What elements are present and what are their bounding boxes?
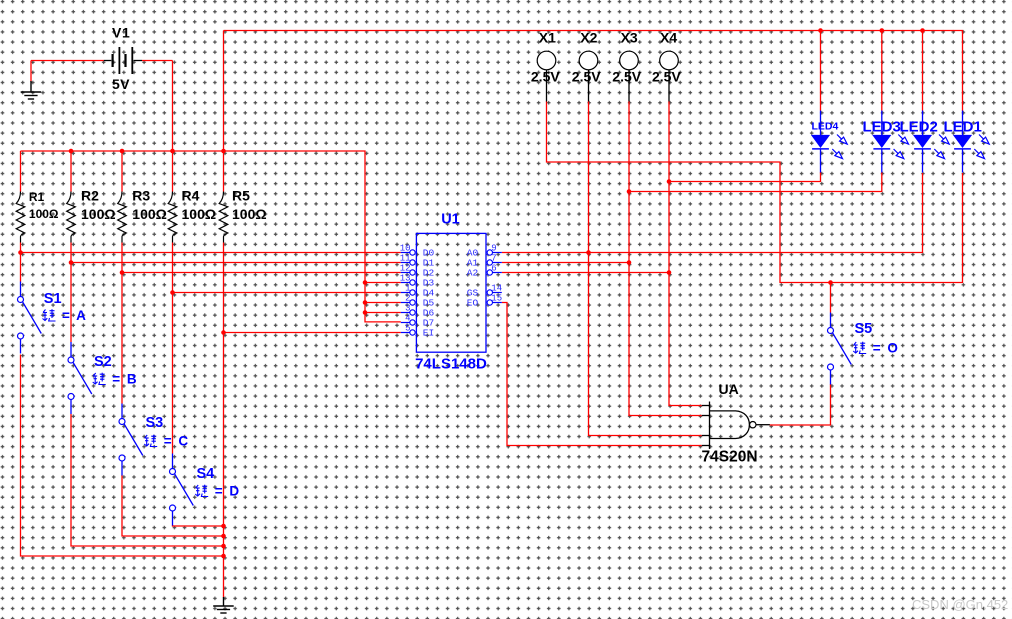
wire S4 to ground bus [173, 525, 224, 526]
U1 pin 14 GS [493, 292, 502, 294]
wire bus to resistor top x=122 [121, 151, 123, 192]
svg-text:13: 13 [400, 273, 411, 283]
wire UA output to S5 bottom [770, 384, 831, 425]
svg-text:4: 4 [405, 313, 410, 323]
switch S2 bottom lead [70, 399, 72, 414]
junction X3 LED3 [627, 189, 632, 194]
wire R5 column down to ground [223, 243, 225, 598]
switch S4 top lead [172, 454, 174, 469]
svg-text:R2: R2 [81, 188, 99, 204]
U1 pin 10 D0 [401, 252, 410, 254]
svg-text:LED2: LED2 [900, 119, 938, 136]
switch S4 top terminal [170, 469, 176, 475]
LED LED2 bottom lead [922, 149, 924, 173]
wire R2 bottom to S2 [70, 243, 72, 343]
wire X1 net to LED1 and S5 [547, 101, 963, 283]
junction R4 D4 [170, 290, 175, 295]
junction top bus LED2 [920, 28, 925, 33]
indicator X3 [620, 51, 639, 70]
LED LED2 triangle [913, 135, 932, 148]
wire X2 column to UA input 3 [589, 101, 702, 436]
svg-text:= B: = B [112, 372, 138, 387]
wire bus drop to LED2 [922, 31, 924, 111]
U1 pin 6 A2 [493, 272, 502, 274]
svg-text:X4: X4 [660, 30, 677, 46]
switch S1 top terminal [18, 297, 24, 303]
wire S1 to ground bus [21, 355, 224, 557]
ground top left [21, 81, 42, 99]
U1 pin 5 EI [401, 332, 410, 334]
svg-text:6: 6 [491, 263, 496, 273]
svg-text:S1: S1 [44, 291, 62, 307]
LED LED3 bottom lead [881, 149, 883, 173]
svg-text:R4: R4 [182, 188, 200, 204]
LED LED4 triangle [811, 135, 830, 148]
wire bus drop to LED4 [820, 31, 822, 111]
LED LED3 arrow 1 [898, 135, 908, 145]
wire LED3 branch [629, 172, 882, 192]
svg-text:S4: S4 [197, 466, 215, 482]
svg-text:= A: = A [62, 308, 87, 323]
junction bus R5 riser [221, 149, 226, 154]
wire 5V bus y=151 and riser to D7 [21, 151, 401, 322]
LED LED4 arrow 1 [837, 135, 847, 145]
LED LED4 bottom lead [820, 149, 822, 173]
junction ground S4 [221, 524, 226, 529]
svg-text:R5: R5 [232, 188, 250, 204]
switch S4 bottom terminal [170, 505, 176, 511]
label S4 key = D [195, 485, 208, 497]
battery V1 [104, 47, 142, 74]
svg-text:LED3: LED3 [863, 119, 901, 136]
switch S2 bottom terminal [68, 394, 74, 400]
wire bus drop to LED3 [881, 31, 883, 111]
wire X3 column to UA input 2 [629, 101, 702, 416]
switch S3 bottom terminal [119, 455, 125, 461]
junction bus R2 [69, 149, 74, 154]
switch S5 top lead [830, 313, 832, 328]
junction ground S1 [221, 554, 226, 559]
junction top bus LED4 [818, 28, 823, 33]
U1 pin 12 D2 [401, 272, 410, 274]
wire R1 bottom to S1 [20, 243, 22, 282]
svg-text:15: 15 [491, 293, 502, 303]
svg-text:V1: V1 [112, 25, 130, 41]
indicator X3 lead [628, 70, 630, 102]
svg-text:3: 3 [405, 303, 410, 313]
svg-text:R3: R3 [132, 188, 150, 204]
wire 5V to D6 [365, 312, 401, 314]
wire top 5V bus to LED1 [224, 31, 963, 112]
junction ground S2 [221, 544, 226, 549]
gate UA input stubs [702, 405, 710, 407]
wire V1 plus to bus riser [142, 60, 173, 62]
junction A2 X4 [667, 270, 672, 275]
U1 pin 3 D6 [401, 312, 410, 314]
wire ground to V1 minus [30, 61, 32, 83]
junction X1 net S5 [828, 280, 833, 285]
junction ground S3 [221, 534, 226, 539]
svg-text:100Ω: 100Ω [29, 207, 59, 221]
svg-text:2.5V: 2.5V [652, 69, 681, 85]
indicator X1 [537, 51, 556, 70]
svg-text:S5: S5 [855, 321, 873, 337]
LED LED3 triangle [872, 135, 891, 148]
switch S2 top lead [70, 342, 72, 357]
junction A0 X2 [586, 250, 591, 255]
LED LED1 triangle [953, 135, 972, 148]
wire bus to resistor top x=20.5 [20, 151, 22, 192]
junction X4 LED4 [667, 179, 672, 184]
wire EO to UA input 4 [502, 303, 702, 446]
switch S5 bottom terminal [828, 364, 834, 370]
svg-text:7: 7 [491, 253, 496, 263]
gate UA bubble [750, 422, 756, 428]
LED LED1 arrow 2 [974, 149, 984, 159]
svg-text:1: 1 [405, 283, 410, 293]
indicator X4 lead [668, 70, 670, 102]
junction R1 D0 [18, 250, 23, 255]
svg-text:LED4: LED4 [812, 121, 839, 133]
resistor R1 [16, 192, 25, 243]
svg-text:X2: X2 [580, 30, 597, 46]
svg-text:U1: U1 [441, 212, 460, 228]
svg-text:100Ω: 100Ω [182, 206, 217, 222]
wire LED4 branch [669, 172, 821, 182]
junction 5V D3 [363, 280, 368, 285]
U1 pin 1 D4 [401, 292, 410, 294]
svg-text:2.5V: 2.5V [531, 69, 560, 85]
LED LED3 top lead [881, 111, 883, 137]
indicator X2 lead [588, 70, 590, 102]
ground bottom [213, 597, 234, 613]
switch S1 blade [23, 302, 42, 333]
wire net B to D1 [71, 262, 401, 264]
svg-text:CSDN @Gn.452: CSDN @Gn.452 [912, 597, 1008, 612]
svg-text:10: 10 [400, 243, 411, 253]
indicator X1 lead [546, 70, 548, 102]
svg-text:100Ω: 100Ω [132, 206, 167, 222]
LED LED2 top lead [922, 111, 924, 137]
wire net C to D2 [122, 272, 401, 274]
wire S2 to ground bus [71, 414, 224, 546]
LED LED1 cathode bar [954, 148, 971, 150]
svg-text:S2: S2 [94, 354, 112, 370]
U1 pin 7 A1 [493, 262, 502, 264]
svg-text:2.5V: 2.5V [572, 69, 601, 85]
switch S5 bottom lead [830, 370, 832, 385]
svg-text:X1: X1 [539, 30, 556, 46]
switch S5 blade [833, 333, 852, 364]
svg-text:= O: = O [873, 341, 900, 356]
wire A0 to X2 and LED2 [502, 173, 923, 253]
switch S2 blade [73, 363, 92, 394]
switch S3 blade [124, 424, 143, 455]
wire R4 bottom to S4 [172, 243, 174, 454]
resistor R2 [67, 192, 76, 243]
junction A1 X3 [627, 260, 632, 265]
LED LED1 top lead [962, 111, 964, 137]
svg-text:100Ω: 100Ω [232, 206, 267, 222]
gate UA 74S20N body [710, 402, 750, 450]
U1 pin 13 D3 [401, 282, 410, 284]
switch S4 bottom lead [172, 511, 174, 526]
switch S3 top terminal [119, 419, 125, 425]
LED LED4 cathode bar [812, 148, 829, 150]
svg-text:X3: X3 [621, 30, 638, 46]
U1 pin 4 D7 [401, 322, 410, 324]
wire 5V to D3 [365, 282, 401, 284]
wire bus to resistor top x=223.5 [223, 151, 225, 192]
switch S3 top lead [121, 404, 123, 419]
LED LED1 arrow 1 [979, 135, 989, 145]
switch S1 top lead [20, 282, 22, 297]
switch S2 top terminal [68, 357, 74, 363]
wire EI row [224, 332, 401, 334]
junction 5V D6 [363, 310, 368, 315]
wire X4 column to UA input 1 [669, 101, 702, 406]
svg-text:= C: = C [164, 434, 190, 449]
svg-text:74LS148D: 74LS148D [415, 356, 487, 373]
LED LED2 arrow 1 [939, 135, 949, 145]
wire node to S5 top [830, 283, 832, 313]
svg-text:EO: EO [467, 298, 479, 309]
wire S3 to ground bus [122, 475, 224, 536]
resistor R4 [168, 192, 177, 243]
indicator X2 [579, 51, 598, 70]
svg-text:R1: R1 [29, 190, 45, 204]
svg-text:S3: S3 [146, 415, 164, 431]
LED LED4 top lead [820, 111, 822, 137]
wire R3 bottom to S3 [121, 243, 123, 404]
svg-text:11: 11 [400, 253, 411, 263]
svg-text:2: 2 [405, 293, 410, 303]
indicator X4 [660, 51, 679, 70]
svg-text:EI: EI [423, 328, 434, 339]
LED LED3 arrow 2 [894, 149, 904, 159]
svg-text:UA: UA [719, 381, 739, 397]
wire net D to D4 [173, 292, 401, 294]
switch S1 bottom terminal [18, 333, 24, 339]
junction top bus LED3 [880, 28, 885, 33]
svg-text:A2: A2 [467, 268, 479, 279]
svg-text:9: 9 [491, 243, 496, 253]
U1 pin 9 A0 [493, 252, 502, 254]
wire bus to resistor top x=71 [70, 151, 72, 192]
LED LED1 bottom lead [962, 149, 964, 173]
junction R3 D2 [120, 270, 125, 275]
op U1 74LS148D body [416, 233, 486, 352]
wire A2 to X4 node [502, 272, 669, 274]
svg-text:100Ω: 100Ω [81, 206, 116, 222]
svg-text:14: 14 [491, 283, 502, 293]
svg-text:LED1: LED1 [944, 119, 982, 136]
label S1 key = A [43, 309, 56, 321]
wire 5V to D5 [365, 302, 401, 304]
U1 pin 11 D1 [401, 262, 410, 264]
LED LED4 arrow 2 [832, 149, 842, 159]
wire A1 to X3 node [502, 262, 629, 264]
junction R5 EI [221, 330, 226, 335]
junction R2 D1 [69, 260, 74, 265]
wire bus to resistor top x=172.5 [172, 151, 174, 192]
label S5 key = O [853, 342, 866, 354]
svg-text:74S20N: 74S20N [702, 449, 758, 466]
LED LED2 arrow 2 [934, 149, 944, 159]
label S2 key = B [93, 373, 106, 385]
junction bus R3 [120, 149, 125, 154]
svg-text:5V: 5V [112, 76, 130, 92]
LED LED2 cathode bar [914, 148, 931, 150]
wire net A to D0 [21, 252, 401, 254]
label S3 key = C [144, 435, 157, 447]
junction bus R4 V1 [170, 149, 175, 154]
U1 pin 15 EO [493, 302, 502, 304]
switch S5 top terminal [828, 328, 834, 334]
gate UA output stub [756, 424, 770, 426]
U1 pin 2 D5 [401, 302, 410, 304]
switch S3 bottom lead [121, 461, 123, 476]
svg-text:= D: = D [215, 484, 241, 499]
switch S1 bottom lead [20, 339, 22, 354]
svg-text:5: 5 [405, 323, 410, 333]
wire riser x=223.5 [223, 31, 225, 152]
LED LED3 cathode bar [873, 148, 890, 150]
svg-text:2.5V: 2.5V [612, 69, 641, 85]
junction 5V D5 [363, 300, 368, 305]
resistor R3 [118, 192, 127, 243]
switch S4 blade [175, 474, 194, 505]
svg-text:12: 12 [400, 263, 411, 273]
resistor R5 [219, 192, 228, 243]
